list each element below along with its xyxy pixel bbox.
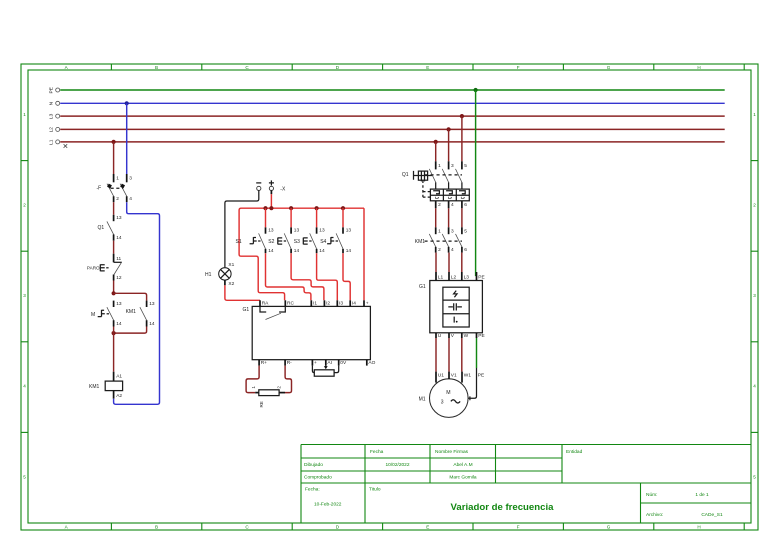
svg-text:5: 5 (464, 163, 467, 169)
wire S3 to I3 (317, 253, 338, 300)
svg-text:B: B (155, 525, 158, 530)
svg-text:Marc Gomila: Marc Gomila (449, 475, 477, 481)
svg-text:G1: G1 (419, 284, 426, 290)
svg-text:Fecha:: Fecha: (305, 487, 320, 493)
svg-text:U1: U1 (438, 373, 444, 379)
svg-text:1: 1 (116, 176, 119, 182)
svg-text:2: 2 (23, 203, 26, 208)
svg-text:1 de 1: 1 de 1 (695, 492, 709, 498)
svg-text:1: 1 (438, 163, 441, 169)
svg-text:13: 13 (294, 228, 300, 234)
svg-text:+: + (314, 361, 317, 366)
svg-text:1: 1 (438, 228, 441, 234)
svg-text:2: 2 (753, 203, 756, 208)
svg-text:6: 6 (464, 202, 467, 208)
svg-text:X1: X1 (228, 262, 234, 268)
svg-text:13: 13 (116, 215, 122, 221)
neutral return wire blue (114, 202, 160, 404)
svg-text:2: 2 (277, 386, 282, 389)
svg-text:Titulo: Titulo (369, 487, 381, 493)
wire R+ to resistor RE (246, 366, 259, 393)
svg-text:5: 5 (753, 474, 756, 479)
svg-text:L3: L3 (49, 113, 55, 119)
svg-text:14: 14 (319, 248, 325, 254)
svg-text:0V: 0V (340, 360, 347, 366)
svg-text:PE: PE (478, 274, 484, 280)
junction node bottom of M/KM1 branch (112, 331, 116, 335)
svg-text:5: 5 (464, 228, 467, 234)
svg-text:10-Feb-2022: 10-Feb-2022 (314, 502, 342, 508)
svg-text:S2: S2 (268, 239, 274, 245)
svg-text:L3: L3 (464, 274, 470, 280)
wire marker x (64, 144, 68, 148)
svg-text:RA: RA (262, 300, 269, 306)
wire bus to + pin (363, 208, 365, 300)
svg-text:13: 13 (268, 228, 274, 234)
wire L1 drop to fuse F (113, 142, 115, 174)
pushbutton PARO 11-12 NC (87, 254, 122, 281)
wires Q1 to KM1 (435, 208, 437, 227)
svg-text:3: 3 (451, 228, 454, 234)
contactor KM1 main poles (415, 227, 468, 253)
svg-text:10/02/2022: 10/02/2022 (385, 462, 409, 468)
svg-text:11: 11 (116, 256, 121, 262)
G1 top pins (260, 300, 369, 306)
svg-text:W1: W1 (464, 373, 472, 379)
breaker Q1 (402, 161, 469, 208)
pushbutton M 13-14 NO (91, 301, 122, 327)
svg-text:14: 14 (346, 248, 352, 254)
terminal -X plus (269, 180, 274, 190)
svg-text:2: 2 (438, 202, 441, 208)
wires G1 to motor (435, 338, 437, 372)
potentiometer on + AI 0V (312, 366, 338, 377)
wire PARO to junction (113, 281, 115, 294)
svg-text:S1: S1 (236, 239, 242, 245)
svg-text:13: 13 (346, 228, 352, 234)
wire bus to S2 (290, 208, 292, 227)
svg-text:I1: I1 (313, 300, 317, 306)
svg-text:L2: L2 (49, 127, 55, 133)
title block (301, 445, 751, 524)
wire H1 to RA (225, 285, 260, 300)
svg-text:KM1: KM1 (415, 239, 426, 245)
svg-text:E: E (426, 525, 429, 530)
svg-text:PARO: PARO (87, 266, 100, 271)
svg-text:Q1: Q1 (402, 172, 409, 178)
svg-text:Dibujado: Dibujado (304, 462, 323, 468)
motor M1 (419, 372, 485, 418)
wire S1 to I1 (266, 253, 311, 300)
svg-text:A2: A2 (116, 393, 122, 399)
svg-text:6: 6 (464, 247, 467, 253)
switch-fuse F1 pole 3-4 (120, 174, 132, 202)
block G1 frequency drive control (243, 306, 371, 359)
svg-text:R-: R- (287, 360, 292, 366)
svg-text:4: 4 (451, 247, 454, 253)
wire S4 to I4 (343, 253, 350, 300)
contact KM1 13-14 NO (126, 301, 155, 327)
junction L1 left (112, 140, 116, 144)
svg-text:M: M (446, 390, 450, 396)
svg-text:RC: RC (287, 300, 294, 306)
svg-text:-X: -X (280, 186, 286, 192)
svg-text:3: 3 (23, 293, 26, 298)
svg-text:14: 14 (268, 248, 274, 254)
svg-text:PE: PE (478, 333, 484, 339)
junction N left (125, 101, 129, 105)
svg-text:S3: S3 (294, 239, 300, 245)
svg-text:3: 3 (129, 176, 132, 182)
svg-text:Núm:: Núm: (646, 492, 657, 498)
wire KM1 contact to junction (114, 327, 147, 334)
wire M to coil KM1 (113, 327, 115, 334)
net L1 (49, 139, 725, 145)
svg-text:14: 14 (149, 321, 155, 327)
svg-text:PE: PE (478, 373, 484, 379)
net L3 (49, 113, 725, 119)
svg-text:S4: S4 (320, 239, 326, 245)
svg-text:13: 13 (149, 301, 155, 307)
svg-text:KM1: KM1 (89, 384, 100, 390)
wire Q1 to PARO (113, 241, 115, 254)
svg-text:3: 3 (441, 400, 444, 406)
PE wire below G1 (476, 338, 478, 368)
svg-text:13: 13 (319, 228, 325, 234)
wire branch to KM1 contact (114, 293, 147, 300)
wire bus to S1 (265, 208, 267, 227)
svg-text:M: M (91, 312, 95, 318)
terminal -X minus (256, 183, 261, 191)
junction dots on red bus (263, 206, 267, 210)
switch S3 13-14 (294, 227, 325, 254)
switch S1 13-14 (236, 227, 274, 254)
wire S2 to I2 (291, 253, 324, 300)
coil KM1 A1-A2 (89, 372, 123, 399)
svg-text:3: 3 (753, 293, 756, 298)
svg-text:13: 13 (116, 301, 122, 307)
svg-text:W: W (464, 333, 469, 339)
wire N drop to fuse F (126, 103, 128, 174)
svg-text:CADe_S1: CADe_S1 (701, 512, 723, 518)
svg-text:AI: AI (327, 360, 332, 366)
mechanical link dashes F (111, 187, 123, 189)
svg-text:I4: I4 (352, 300, 356, 306)
svg-text:4: 4 (753, 384, 756, 389)
svg-text:H: H (697, 525, 700, 530)
svg-text:2: 2 (438, 247, 441, 253)
svg-text:L1: L1 (49, 139, 55, 145)
svg-text:1: 1 (23, 112, 26, 117)
auxiliary contact Q1 13-14 (98, 215, 122, 241)
svg-text:H: H (697, 65, 700, 70)
svg-text:E: E (426, 65, 429, 70)
svg-text:RE: RE (259, 401, 264, 407)
svg-text:Variador de frecuencia: Variador de frecuencia (451, 502, 555, 513)
phase drops to Q1 (435, 142, 437, 161)
svg-text:1: 1 (251, 386, 256, 389)
junction dots on phases (434, 140, 438, 144)
lamp H1 (205, 262, 235, 287)
net N (49, 101, 725, 105)
svg-text:5: 5 (23, 474, 26, 479)
switch-fuse F1 pole 1-2 (107, 174, 119, 202)
wire F to Q1 contact (113, 202, 115, 215)
svg-text:U: U (438, 333, 442, 339)
svg-text:-F: -F (97, 186, 102, 192)
G1 bottom pins (259, 360, 375, 366)
svg-text:V1: V1 (451, 373, 457, 379)
resistor RE (251, 386, 282, 408)
svg-text:I3: I3 (339, 300, 343, 306)
svg-text:G: G (607, 525, 611, 530)
net L2 (49, 127, 725, 133)
svg-text:Archivo:: Archivo: (646, 512, 663, 518)
svg-text:A1: A1 (116, 373, 122, 379)
wire bus to S4 (342, 208, 344, 227)
svg-text:14: 14 (116, 321, 122, 327)
svg-text:12: 12 (116, 275, 122, 281)
svg-text:L2: L2 (451, 274, 457, 280)
svg-text:Abel A.M: Abel A.M (453, 462, 472, 468)
PE drop to G1 (475, 90, 477, 276)
svg-text:KM1: KM1 (126, 309, 137, 315)
wire R- to resistor RE (285, 366, 292, 393)
svg-text:B: B (155, 65, 158, 70)
svg-text:R+: R+ (261, 360, 267, 366)
wire minus to lamp H1 (225, 191, 259, 268)
svg-text:3: 3 (451, 163, 454, 169)
svg-text:Fecha: Fecha (370, 449, 384, 455)
svg-text:G1: G1 (243, 307, 250, 313)
switch S4 13-14 (320, 227, 351, 254)
svg-text:AO: AO (368, 360, 375, 366)
wires KM1 to G1 drive (435, 253, 437, 272)
svg-text:F: F (517, 525, 520, 530)
svg-text:PE: PE (49, 87, 55, 93)
relay contact RA-RC inside G1 (260, 306, 285, 312)
switch S2 13-14 (268, 227, 299, 254)
svg-text:G: G (607, 65, 611, 70)
svg-text:4: 4 (451, 202, 454, 208)
svg-text:+: + (366, 301, 369, 306)
wire bus to S3 (316, 208, 318, 227)
svg-text:Nombre Firmas: Nombre Firmas (435, 449, 469, 455)
svg-text:4: 4 (129, 196, 132, 202)
svg-text:N: N (49, 101, 55, 105)
net PE (49, 87, 725, 93)
svg-text:4: 4 (23, 384, 26, 389)
svg-text:M1: M1 (419, 397, 426, 403)
svg-text:2: 2 (116, 196, 119, 202)
svg-text:Q1: Q1 (98, 225, 105, 231)
svg-text:I2: I2 (326, 300, 330, 306)
svg-text:14: 14 (294, 248, 300, 254)
svg-text:Comprobado: Comprobado (304, 475, 332, 481)
wire plus to red bus (270, 191, 272, 195)
svg-text:Entidad: Entidad (566, 449, 583, 455)
svg-text:H1: H1 (205, 272, 212, 278)
svg-text:L1: L1 (438, 274, 444, 280)
svg-text:X2: X2 (228, 281, 234, 287)
svg-text:1: 1 (753, 112, 756, 117)
drive G1 box (419, 272, 485, 339)
red bus +24V (239, 208, 364, 300)
svg-text:F: F (517, 65, 520, 70)
svg-text:14: 14 (116, 235, 122, 241)
junction node top of M/KM1 branch (112, 291, 116, 295)
